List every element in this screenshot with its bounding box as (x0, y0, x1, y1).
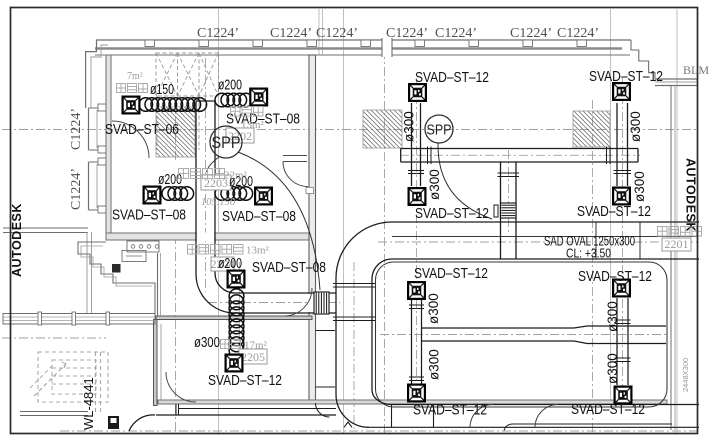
svg-text:ø300: ø300 (426, 293, 441, 324)
svg-text:SVAD–ST–08: SVAD–ST–08 (222, 209, 296, 225)
svg-text:SVAD–ST–08: SVAD–ST–08 (252, 260, 326, 276)
svg-text:17m²: 17m² (244, 340, 268, 352)
svg-text:22m²: 22m² (224, 170, 248, 182)
svg-text:ø300: ø300 (194, 335, 220, 351)
svg-text:13m²: 13m² (246, 245, 270, 257)
svg-text:ø300: ø300 (605, 353, 620, 384)
svg-text:ø300: ø300 (402, 111, 417, 142)
svg-text:SVAD–ST–12: SVAD–ST–12 (413, 403, 487, 419)
svg-text:SPP: SPP (212, 134, 241, 152)
svg-text:SPP: SPP (427, 123, 452, 139)
svg-text:7m²: 7m² (127, 71, 143, 82)
svg-text:2448X300: 2448X300 (681, 358, 690, 392)
svg-text:C1224’: C1224’ (69, 168, 84, 210)
svg-text:ø300: ø300 (427, 349, 442, 380)
svg-text:ø300: ø300 (427, 169, 442, 200)
svg-text:SVAD–ST–12: SVAD–ST–12 (208, 373, 282, 389)
svg-text:C1224’: C1224’ (510, 26, 552, 41)
svg-text:C1224’: C1224’ (316, 26, 358, 41)
svg-text:WL-4841: WL-4841 (81, 377, 96, 430)
svg-text:2201: 2201 (665, 237, 689, 251)
svg-text:ø300: ø300 (628, 111, 643, 142)
svg-text:13m²: 13m² (241, 119, 265, 131)
svg-text:SVAD–ST–12: SVAD–ST–12 (577, 204, 651, 220)
svg-text:SVAD–ST–12: SVAD–ST–12 (589, 69, 663, 85)
svg-text:SVAD–ST–06: SVAD–ST–06 (105, 122, 179, 138)
svg-text:105.150: 105.150 (201, 197, 236, 208)
svg-text:SVAD–ST–12: SVAD–ST–12 (571, 402, 645, 418)
svg-text:ø150: ø150 (150, 82, 174, 98)
svg-text:SVAD–ST–12: SVAD–ST–12 (578, 269, 652, 285)
svg-text:C1224’: C1224’ (557, 26, 599, 41)
svg-text:C1224’: C1224’ (197, 26, 239, 41)
svg-text:ø300: ø300 (605, 301, 620, 332)
svg-text:AUTODESK: AUTODESK (684, 158, 698, 232)
svg-text:SVAD–ST–12: SVAD–ST–12 (414, 266, 488, 282)
svg-text:CL: +3.50: CL: +3.50 (566, 246, 611, 261)
svg-text:C1224’: C1224’ (386, 26, 428, 41)
svg-text:C1224’: C1224’ (435, 26, 477, 41)
svg-text:ø200: ø200 (218, 256, 242, 272)
svg-text:ø300: ø300 (632, 171, 647, 202)
svg-text:SVAD–ST–08: SVAD–ST–08 (112, 208, 186, 224)
svg-text:ø200: ø200 (218, 78, 242, 94)
svg-text:BLM: BLM (683, 63, 709, 77)
svg-text:C1224’: C1224’ (69, 108, 84, 150)
svg-text:2205: 2205 (241, 350, 265, 364)
svg-text:SVAD–ST–12: SVAD–ST–12 (415, 70, 489, 86)
svg-text:SVAD–ST–12: SVAD–ST–12 (415, 206, 489, 222)
svg-text:C1224’: C1224’ (270, 26, 312, 41)
svg-text:AUTODESK: AUTODESK (10, 203, 24, 277)
